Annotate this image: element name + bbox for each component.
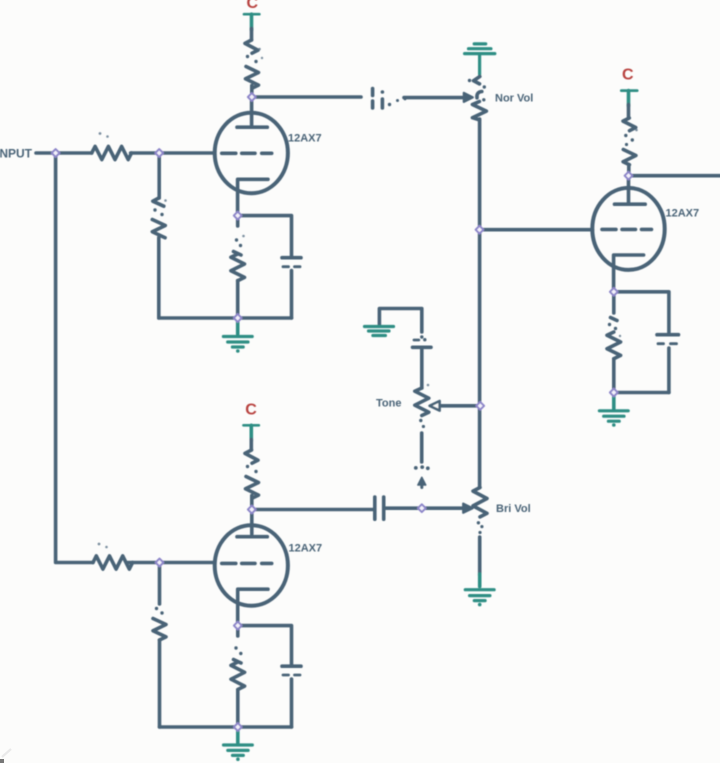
potentiometer Nor Vol body (sketchy top): [474, 77, 480, 84]
node grid 2: [156, 559, 164, 567]
capacitor C5 tone (sketchy top plate): [420, 335, 423, 338]
tube U1 envelope: [215, 113, 288, 193]
tube U2 grid dashes: [602, 228, 652, 232]
capacitor C2 cathode bypass (stage 1): [282, 256, 301, 260]
ground (Bri Vol): [465, 590, 494, 601]
wire resistor to grid (stage 2): [128, 561, 214, 565]
tube U3 envelope: [215, 525, 288, 605]
potentiometer Bri Vol body: [473, 488, 487, 517]
node tone wiper junction: [476, 402, 484, 410]
node cathode 1 top: [234, 212, 242, 220]
node plate 1: [248, 93, 256, 101]
svg-text:Bri Vol: Bri Vol: [496, 503, 531, 515]
supply rail bar (stage 1): [244, 13, 259, 16]
potentiometer Nor Vol wiper arrow: [464, 93, 473, 102]
tube U3 grid dashes: [222, 562, 272, 566]
wire cathode bottom rail (right stage): [614, 391, 669, 395]
node bus to U2 grid: [476, 226, 484, 234]
node grid 1: [155, 149, 163, 157]
tube U2 plate bar: [615, 202, 646, 206]
wire junction to U2 grid: [479, 228, 592, 232]
resistor R8 grid stopper (stage 2): [93, 556, 133, 569]
wire cathode node to bypass cap: [238, 216, 292, 257]
tube U1 12AX7 plate bar: [237, 125, 267, 129]
svg-text:12AX7: 12AX7: [666, 208, 700, 220]
svg-text:C: C: [247, 0, 259, 12]
resistor R5 plate (right stage, sketchy): [623, 118, 636, 131]
tube U3 plate bar: [237, 535, 267, 539]
resistor R2 grid stopper (stage 1): [92, 146, 132, 159]
node input branch: [52, 149, 60, 157]
ground inverted above Nor Vol: [465, 44, 495, 75]
potentiometer Tone body: [415, 388, 429, 416]
wire plate node to output (right edge): [629, 174, 720, 178]
potentiometer Tone wiper arrow: [434, 404, 480, 408]
svg-text:Tone: Tone: [376, 398, 401, 410]
svg-text:INPUT: INPUT: [0, 147, 33, 161]
wire grid node down: [157, 153, 161, 198]
wire coupling cap to Nor Vol wiper: [404, 96, 462, 100]
wire grid node down (stage 2): [158, 563, 162, 605]
resistor R3 grid leak (stage 1, sketchy): [153, 198, 164, 206]
wire cap to Bri junction and wiper: [386, 506, 462, 510]
ground (right stage cathode): [612, 395, 616, 410]
wire resistor to grid: [131, 151, 215, 155]
svg-text:Nor Vol: Nor Vol: [495, 93, 533, 105]
wire plate lead (U2): [627, 176, 631, 202]
svg-text:C: C: [245, 402, 257, 419]
resistor R6 cathode (right stage, sketchy): [612, 292, 616, 313]
node cathode U2 top: [610, 288, 618, 296]
supply rail bar (right stage): [621, 89, 637, 92]
wire U2 cathode node to bypass cap: [614, 292, 669, 333]
wire plate node to coupling cap: [252, 95, 361, 99]
wire cathode bottom rail: [159, 316, 292, 320]
capacitor C8 bright (faded plates): [414, 466, 418, 470]
wire cathode bottom rail (stage 2): [160, 725, 292, 729]
node bri cap junction: [418, 504, 426, 512]
resistor R10 cathode (stage 2, sketchy): [236, 628, 240, 636]
wire Bri Vol to ground (sketchy top): [478, 531, 481, 534]
capacitor C1 coupling (stage 1, sketchy): [371, 89, 375, 109]
node plate 2: [248, 506, 256, 514]
tube U3 cathode: [238, 589, 268, 625]
node cathode 2 bottom: [234, 723, 242, 731]
wire plate lead (U3): [250, 510, 254, 535]
capacitor C6 coupling (stage 2): [373, 497, 377, 519]
ground (stage 1 cathode): [236, 320, 240, 334]
wire: [98, 48, 638, 549]
ground (Tone top): [379, 309, 421, 333]
wire stage2 plate to cap: [254, 508, 373, 512]
node plate U2: [625, 172, 633, 180]
wire input branch down: [56, 153, 93, 563]
node cathode U2 bottom: [610, 389, 618, 397]
corner smudge: [0, 759, 4, 763]
node cathode 1 bottom: [234, 314, 242, 322]
svg-text:C: C: [622, 67, 634, 84]
capacitor C7 cathode bypass (stage 2): [282, 664, 301, 668]
node cathode 2 top: [234, 622, 242, 630]
wire input: [36, 151, 92, 155]
capacitor C4 cathode bypass (right stage): [657, 333, 679, 337]
resistor R9 grid leak (stage 2, sketchy): [155, 607, 158, 610]
resistor R4 cathode (stage 1, sketchy): [236, 219, 240, 226]
wire Tone bottom (sketchy dots): [419, 419, 422, 422]
wire plate lead: [250, 97, 254, 125]
svg-text:12AX7: 12AX7: [288, 133, 322, 145]
supply rail bar (stage 2): [244, 424, 259, 427]
tube U1 grid dashes: [222, 152, 272, 156]
tube U1 cathode: [238, 179, 268, 215]
potentiometer Bri Vol wiper arrow: [463, 504, 472, 513]
svg-text:12AX7: 12AX7: [289, 543, 323, 555]
tube U2 envelope: [592, 188, 664, 270]
wire cathode node to bypass cap (stage 2): [238, 626, 292, 665]
wire supply to plate resistor: [250, 29, 254, 41]
wire Nor Vol bottom down the bus: [478, 119, 482, 488]
resistor R1 plate (stage 1, sketchy): [245, 40, 258, 53]
tube U2 cathode: [614, 255, 644, 292]
resistor R7 plate (stage 2, sketchy): [245, 450, 258, 463]
ground (stage 2 cathode): [236, 729, 240, 743]
